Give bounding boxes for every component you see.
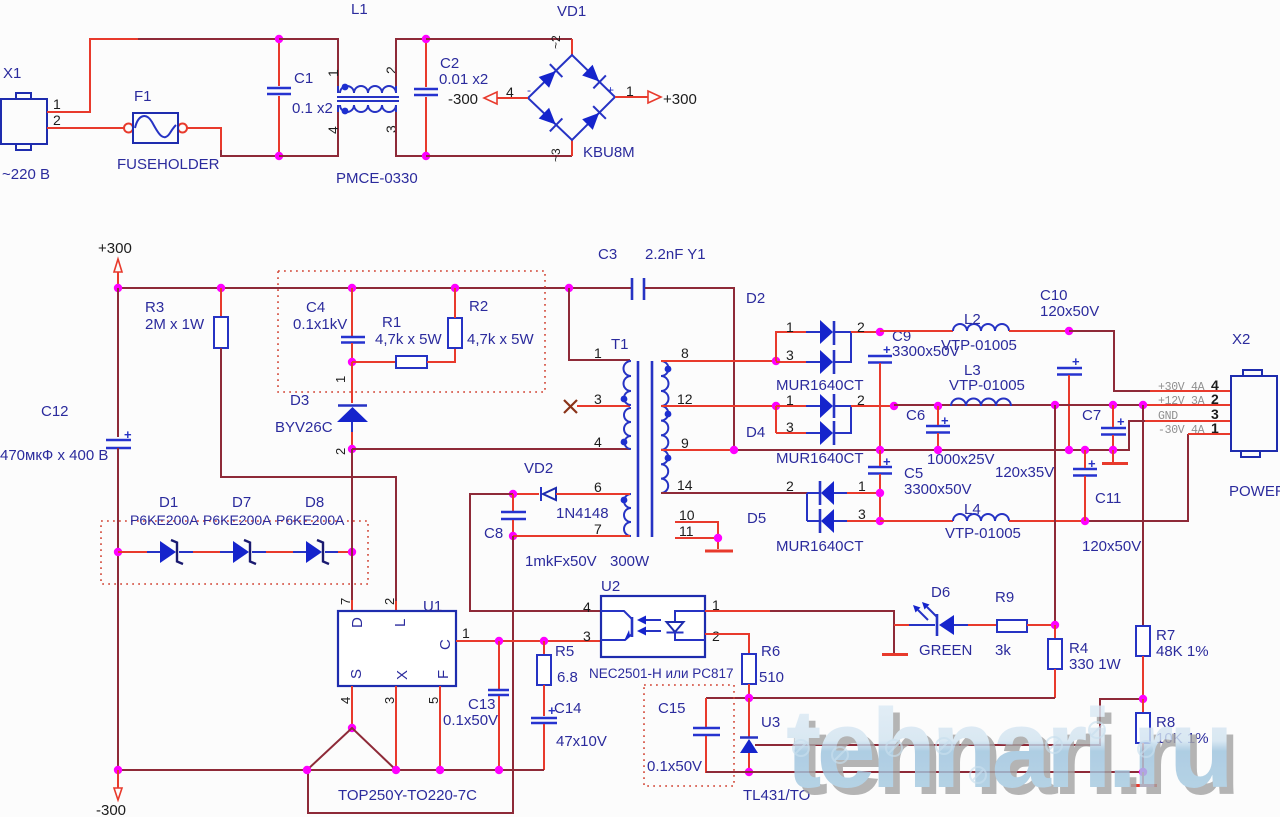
inductor L4 VTP-01005 [945,501,1141,555]
diode D3 BYV26C [275,362,368,455]
net -300 output arrow [448,84,528,108]
capacitor C14 [531,700,607,770]
svg-text:2.2nF Y1: 2.2nF Y1 [645,246,706,263]
junction C4 bottom / R1 [348,358,356,366]
svg-text:300W: 300W [610,553,650,570]
svg-text:VTP-01005: VTP-01005 [949,377,1025,394]
svg-text:6: 6 [594,479,602,495]
resistor R4 [1048,625,1122,698]
svg-text:X: X [394,670,411,680]
wire drain row to T1 pin4 [352,448,630,450]
dual diode D4 MUR1640CT [746,392,894,467]
capacitor C15 [647,698,749,775]
svg-text:3: 3 [594,391,602,407]
dotted snubber box [278,271,545,392]
junction C7 bottom [1109,446,1117,454]
svg-text:12: 12 [677,391,693,407]
svg-text:X2: X2 [1232,331,1250,348]
svg-text:X1: X1 [3,65,21,82]
capacitor C5 [868,450,972,498]
wire L1 pin3 to C2 bottom [396,112,426,156]
capacitor C3 [598,246,706,300]
junction D2 input [772,357,780,365]
wire rail to T1 pin1 [569,288,630,360]
svg-text:D4: D4 [746,424,765,441]
wire R3 to U1 L pin [221,348,396,601]
capacitor C12 [0,403,132,464]
wire T1 pin14 to D5 [661,492,807,494]
wire +12V row [894,404,1143,406]
bridge rectifier VD1 KBU8M [527,3,635,162]
svg-text:4: 4 [325,126,341,134]
no-connect X on pin3 [564,391,630,413]
wire U1 C pin row [456,640,601,642]
wire T1 pin7 [513,535,630,537]
junction C7 top [1109,401,1117,409]
junction C8 bottom / T1 pin7 [509,532,517,540]
TVS diode D8 P6KE200A [276,494,345,564]
svg-text:U3: U3 [761,714,780,731]
wire C1 to L1 bottom [279,112,338,156]
wire primary bottom rail [118,769,544,771]
junction C11 top [1081,446,1089,454]
capacitor C8 [484,494,597,570]
svg-text:4: 4 [506,84,514,100]
svg-text:0.01 x2: 0.01 x2 [439,71,488,88]
junction D4 input [772,402,780,410]
dual diode D5 MUR1640CT [747,478,880,555]
junction VD2/C8 node [509,490,517,498]
svg-text:D8: D8 [305,494,324,511]
svg-text:C4: C4 [306,299,325,316]
svg-text:POWER: POWER [1229,483,1280,500]
svg-text:2M x 1W: 2M x 1W [145,316,205,333]
svg-text:VD1: VD1 [557,3,586,20]
wire L1 pin2 to C2 [396,39,426,86]
dotted C15 box [644,685,734,786]
svg-text:L4: L4 [964,501,981,518]
junction R8 bottom [1139,768,1147,776]
svg-text:C14: C14 [554,700,582,717]
junction rail x569 [565,284,573,292]
svg-text:2: 2 [857,392,865,408]
svg-text:11: 11 [679,523,694,539]
resistor R7 [1136,626,1209,699]
svg-text:~2: ~2 [549,35,563,49]
svg-text:U1: U1 [423,598,442,615]
svg-text:D6: D6 [931,584,950,601]
junction rail x455 [451,284,459,292]
svg-text:0.1x1kV: 0.1x1kV [293,316,347,333]
svg-text:C8: C8 [484,525,503,542]
junction S left [303,766,311,774]
svg-text:+: + [607,83,614,97]
wire GND rail [661,449,734,451]
resistor R1 [352,314,455,368]
svg-text:C11: C11 [1095,490,1121,507]
svg-text:2: 2 [382,598,397,605]
wire R7 top branch [1142,405,1144,626]
wire C3 to secondary common [645,288,734,450]
svg-text:GREEN: GREEN [919,642,972,659]
svg-text:R4: R4 [1069,640,1088,657]
wire secondary bottom rail [706,771,1143,773]
LED D6 GREEN [894,584,972,659]
ground under pins 10 11 [705,550,733,553]
net -300 arrow [96,770,126,817]
IC U1 TOP250Y [338,598,477,804]
svg-text:4: 4 [338,697,353,704]
junction S node [348,724,356,732]
svg-text:2: 2 [786,478,794,494]
resistor R8 [1136,699,1209,772]
svg-text:2: 2 [53,112,61,128]
svg-text:7: 7 [594,521,602,537]
junction C1 bottom [275,152,283,160]
svg-text:D7: D7 [232,494,251,511]
capacitor C9 [868,328,960,450]
svg-text:14: 14 [677,477,693,493]
junction X pin [392,766,400,774]
wire T1 pin8 to D2 [661,360,776,362]
wire -30V row to L4 [880,520,953,522]
svg-text:R7: R7 [1156,627,1175,644]
transformer T1 [610,336,671,570]
svg-text:4,7k x 5W: 4,7k x 5W [375,331,443,348]
junction C13 top [495,637,503,645]
svg-text:1: 1 [858,478,866,494]
wire C1 to L1 top [279,39,338,86]
svg-text:2: 2 [1211,391,1219,407]
wire C2 to bridge top [426,38,572,40]
capacitor C4 [293,288,365,362]
svg-text:C10: C10 [1040,287,1068,304]
svg-text:1: 1 [786,392,794,408]
svg-text:470мкФ x 400 В: 470мкФ x 400 В [0,447,108,464]
svg-text:10: 10 [679,507,695,523]
wire T1 pin12 to D4 [661,405,776,407]
junction rail x352 [348,284,356,292]
junction R4 branch [1051,401,1059,409]
svg-text:R9: R9 [995,589,1014,606]
wire C9 node to L2 [880,330,953,332]
dual diode D2 MUR1640CT [776,319,880,394]
junction D5 pin3 [876,517,884,525]
svg-text:C13: C13 [468,696,496,713]
svg-text:120x50V: 120x50V [1082,538,1141,555]
junction +12V node [890,402,898,410]
junction U3 anode [745,768,753,776]
svg-text:GND: GND [1158,410,1178,423]
junction drain node [348,445,356,453]
junction C13 bottom [495,766,503,774]
svg-text:PMCE-0330: PMCE-0330 [336,170,418,187]
svg-text:3: 3 [786,347,794,363]
wire +30V to X2 [1069,331,1150,391]
svg-text:4,7k x 5W: 4,7k x 5W [467,331,535,348]
ground under C7 [1112,450,1114,462]
net +300 arrow main [98,240,132,288]
svg-text:VTP-01005: VTP-01005 [941,337,1017,354]
svg-text:R5: R5 [555,643,574,660]
svg-text:T1: T1 [611,336,629,353]
svg-text:330 1W: 330 1W [1069,656,1122,673]
svg-text:5: 5 [426,697,441,704]
svg-text:TOP250Y-TO220-7C: TOP250Y-TO220-7C [338,787,477,804]
junction C9 top [876,328,884,336]
resistor R2 [448,288,535,348]
svg-text:510: 510 [759,669,784,686]
svg-text:1: 1 [626,83,634,99]
svg-text:R1: R1 [382,314,401,331]
wire L2 to C10 [1009,330,1069,332]
svg-text:+30V 4A: +30V 4A [1158,381,1205,394]
wire +300 rail [118,287,631,289]
svg-text:~220 В: ~220 В [2,166,50,183]
svg-text:1: 1 [53,96,61,112]
junction C2 top [422,35,430,43]
wire L4 to X2 [1009,520,1085,522]
capacitor C11 [1073,450,1121,521]
svg-text:-30V 4A: -30V 4A [1158,424,1205,437]
wire C12 to bottom [117,448,119,770]
svg-text:2: 2 [333,448,348,455]
capacitor C13 [443,641,509,770]
wire S diagonals [307,728,396,770]
svg-text:3300x50V: 3300x50V [904,481,972,498]
optocoupler U2 [583,578,734,681]
svg-text:3: 3 [382,697,397,704]
svg-text:C3: C3 [598,246,617,263]
svg-text:4: 4 [594,434,602,450]
svg-text:D5: D5 [747,510,766,527]
diode VD2 1N4148 [513,460,630,522]
wire U1 F pin [439,686,441,770]
svg-text:FUSEHOLDER: FUSEHOLDER [117,156,220,173]
svg-text:C7: C7 [1082,407,1101,424]
resistor R9 [968,589,1055,659]
svg-text:9: 9 [681,435,689,451]
resistor R3 [145,288,228,348]
svg-text:L1: L1 [351,1,368,18]
svg-text:4: 4 [583,599,591,615]
junction drain/TVS [348,548,356,556]
wire X1 pin1 to top rail [47,39,140,112]
svg-text:-: - [527,83,531,97]
svg-text:VD2: VD2 [524,460,553,477]
junction C1 top [275,35,283,43]
fuse F1 FUSEHOLDER [117,88,220,173]
wire D8 to drain column [338,551,352,553]
junction C6 bottom [934,446,942,454]
wire U1 S pin [351,686,353,728]
wire D1 to D7 [193,551,220,553]
watermark tehnari.ru [786,684,1280,804]
capacitor C1 [267,39,333,156]
svg-text:2: 2 [712,628,720,644]
junction C9 bottom [876,446,884,454]
svg-text:1N4148: 1N4148 [556,505,609,522]
TVS diode D7 P6KE200A [203,494,272,564]
svg-text:P6KE200A: P6KE200A [276,512,345,528]
svg-text:BYV26C: BYV26C [275,419,333,436]
svg-text:47x10V: 47x10V [556,733,607,750]
svg-text:MUR1640CT: MUR1640CT [776,450,864,467]
svg-text:NEC2501-H или PC817: NEC2501-H или PC817 [589,666,734,681]
svg-text:3: 3 [786,419,794,435]
dotted TVS box [101,521,368,584]
svg-text:KBU8M: KBU8M [583,144,635,161]
junction R6 bottom [745,694,753,702]
svg-text:C5: C5 [904,465,923,482]
wire bias node to opto collector [470,494,601,611]
wire left column to C12 [117,288,119,437]
junction R9/R4 [1051,621,1059,629]
svg-text:8: 8 [681,345,689,361]
svg-text:R6: R6 [761,643,780,660]
wire D7 to D8 [266,551,293,553]
junction secondary common [730,446,738,454]
svg-text:D2: D2 [746,290,765,307]
svg-text:C: C [437,639,454,650]
svg-text:F: F [435,670,452,679]
junction D1 row left [114,548,122,556]
wire U3 ref to divider [755,699,1143,745]
wire bottom rail [221,150,279,156]
svg-text:P6KE200A: P6KE200A [130,512,199,528]
net +300 output arrow [615,83,697,108]
TVS diode D1 P6KE200A [118,494,199,564]
svg-text:+12V 3A: +12V 3A [1158,395,1205,408]
junction rail x118 [114,284,122,292]
svg-text:6.8: 6.8 [557,669,578,686]
connector X2 [1158,331,1280,500]
svg-text:1: 1 [594,345,602,361]
svg-text:C1: C1 [294,70,313,87]
wire X1 pin2 to fuse [47,127,124,129]
svg-text:1: 1 [1211,420,1219,436]
junction C11 bottom [1081,517,1089,525]
common-mode choke L1 [325,1,418,187]
svg-text:L2: L2 [964,311,981,328]
capacitor C7 [995,405,1126,481]
connector X1 [1,65,50,183]
inductor L3 VTP-01005 [949,362,1025,406]
svg-text:3: 3 [583,628,591,644]
svg-text:C2: C2 [440,55,459,72]
junction rail -300 [114,766,122,774]
wire C8 return loop [308,536,513,813]
wire R4 bottom to R6/U3 node [706,697,1055,699]
svg-text:F1: F1 [134,88,152,105]
wire fuse to bottom rail [187,128,221,152]
svg-text:MUR1640CT: MUR1640CT [776,538,864,555]
svg-text:3k: 3k [995,642,1011,659]
svg-text:120x35V: 120x35V [995,464,1054,481]
svg-text:U2: U2 [601,578,620,595]
resistor R5 [537,641,578,716]
svg-text:1: 1 [462,625,470,641]
junction pin11 [714,534,722,542]
svg-text:1: 1 [325,69,341,77]
ground under R8 [1142,772,1144,784]
wire U2 pin2 to R6 [705,634,749,654]
inductor L2 VTP-01005 [941,311,1017,354]
svg-text:+300: +300 [98,240,132,257]
svg-text:D3: D3 [290,392,309,409]
junction D5 pin1/C5 [876,489,884,497]
svg-text:0.1x50V: 0.1x50V [443,712,498,729]
capacitor C6 [906,406,995,468]
svg-text:+300: +300 [663,91,697,108]
svg-text:S: S [348,669,365,679]
svg-text:2: 2 [857,319,865,335]
junction C10 bottom [1065,446,1073,454]
wire U1 X pin [395,686,397,770]
svg-text:0.1 x2: 0.1 x2 [292,100,333,117]
svg-text:R3: R3 [145,299,164,316]
svg-text:7: 7 [338,598,353,605]
junction R7 branch [1139,401,1147,409]
svg-text:3: 3 [858,506,866,522]
svg-text:1: 1 [786,319,794,335]
svg-text:L: L [392,619,409,627]
svg-text:0.1x50V: 0.1x50V [647,758,702,775]
junction C6 top [934,402,942,410]
svg-text:D1: D1 [159,494,178,511]
junction F pin [436,766,444,774]
junction R5 top [540,637,548,645]
svg-text:D: D [349,617,366,628]
svg-text:P6KE200A: P6KE200A [203,512,272,528]
svg-text:-300: -300 [96,802,126,817]
svg-text:120x50V: 120x50V [1040,303,1099,320]
svg-text:C12: C12 [41,403,69,420]
svg-text:-300: -300 [448,91,478,108]
wire top rail to C1 [138,38,279,40]
svg-text:48K 1%: 48K 1% [1156,643,1209,660]
capacitor C2 [414,39,488,156]
svg-text:VTP-01005: VTP-01005 [945,525,1021,542]
wire drain column [351,449,353,600]
junction rail x221 [217,284,225,292]
svg-text:1: 1 [333,376,348,383]
svg-text:~3: ~3 [549,148,563,162]
ground under D6 [893,625,895,653]
wire C2 to bridge bottom [426,155,572,157]
junction C2 bottom [422,152,430,160]
T1 pin 10 11 stubs [675,507,718,549]
svg-text:C6: C6 [906,407,925,424]
junction R7/R8 [1139,695,1147,703]
svg-text:R2: R2 [469,298,488,315]
capacitor C10 [1040,287,1099,450]
resistor R6 [742,643,784,698]
shunt regulator U3 TL431 [740,698,810,804]
svg-text:1mkFx50V: 1mkFx50V [525,553,597,570]
svg-text:C15: C15 [658,700,686,717]
wire +12V branch down to R4 [1054,405,1056,625]
wire U2 pin1 to D6 [705,610,770,612]
junction C10 top [1065,327,1073,335]
wire drain into U1 [352,600,396,611]
